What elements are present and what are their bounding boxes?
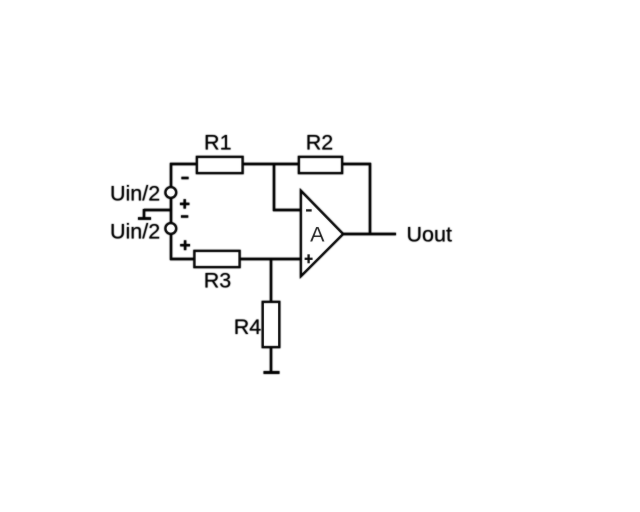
- crisp core pass: [110, 131, 452, 373]
- soft halo pass: [110, 131, 452, 373]
